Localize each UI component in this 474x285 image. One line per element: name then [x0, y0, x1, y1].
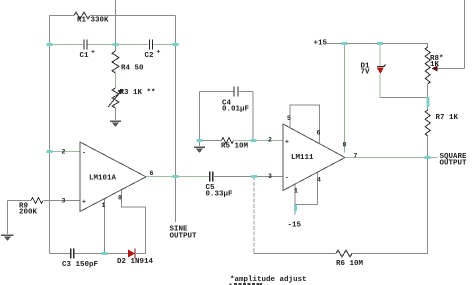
wire R3 to ground — [115, 108, 117, 120]
svg-text:R4 50: R4 50 — [121, 65, 144, 73]
svg-text:C3 150pF: C3 150pF — [62, 261, 99, 269]
wire top feedback — [50, 15, 75, 17]
wire right rail of input loop — [175, 16, 177, 223]
wire C4 loop right — [252, 92, 254, 141]
ground under C4 loop — [194, 147, 205, 154]
wire D1 to R8 rail — [380, 97, 428, 99]
wire feedback vertical — [253, 177, 255, 251]
wire R7 to output row — [427, 136, 429, 158]
resistor R3 — [112, 88, 119, 108]
svg-text:1K: 1K — [430, 61, 440, 69]
wire pin1 down — [103, 199, 105, 254]
wire R8 to R7 — [427, 84, 429, 110]
svg-text:6: 6 — [317, 130, 321, 137]
wire +15 row — [327, 43, 428, 45]
resistor R7 — [425, 110, 430, 136]
note distortion (second footnote, cut off at image bottom) — [230, 283, 263, 285]
node pin1 bottom — [102, 252, 108, 255]
wire LM111 pin1 — [294, 184, 296, 204]
svg-text:C1: C1 — [80, 52, 90, 60]
node D1 top — [377, 42, 383, 45]
node pin6 junction — [173, 175, 179, 178]
svg-text:OUTPUT: OUTPUT — [440, 160, 468, 168]
svg-text:R1 330K: R1 330K — [77, 17, 109, 25]
node square out — [425, 156, 431, 159]
capacitor C5 — [210, 172, 213, 182]
svg-text:R3 1K **: R3 1K ** — [120, 89, 156, 97]
capacitor C3 — [71, 249, 74, 259]
wire R5 row left — [200, 140, 222, 142]
wire C4 loop top — [200, 91, 254, 93]
svg-text:8: 8 — [118, 195, 122, 202]
wire right rail down — [427, 158, 429, 255]
svg-text:LM111: LM111 — [291, 154, 314, 162]
capacitor C1 — [84, 40, 87, 50]
comparator U2 LM111 — [283, 124, 345, 191]
wire LM111 pin4 — [316, 172, 318, 204]
wire R5 to LM111 pin2 — [235, 140, 284, 142]
resistor R8 — [427, 44, 429, 48]
wire pin8 bend — [122, 190, 146, 254]
svg-text:2: 2 — [268, 137, 272, 144]
svg-text:-: - — [285, 175, 289, 182]
svg-text:1: 1 — [102, 202, 106, 209]
svg-text:D2 1N914: D2 1N914 — [117, 258, 154, 266]
wire D1 top — [379, 44, 381, 67]
resistor R9 — [31, 198, 43, 204]
op-amp U1 LM101A — [80, 142, 146, 212]
svg-text:*amplitude adjust: *amplitude adjust — [230, 276, 307, 284]
resistor R5 — [222, 138, 234, 144]
node C row right — [173, 43, 179, 46]
wire D2 to corner — [136, 253, 146, 255]
wire C5 to LM111 — [213, 176, 283, 178]
svg-text:OUTPUT: OUTPUT — [170, 233, 198, 241]
svg-text:5: 5 — [287, 115, 291, 122]
svg-text:200K: 200K — [19, 209, 38, 217]
wire capacitor row b — [88, 44, 149, 46]
wire balance loop pins 5-6 — [290, 105, 319, 144]
capacitor C4 — [234, 87, 238, 97]
svg-text:7: 7 — [354, 153, 358, 160]
svg-text:-15: -15 — [288, 222, 302, 230]
svg-text:0.33µF: 0.33µF — [206, 191, 234, 199]
potentiometer wiper R8 — [432, 0, 465, 72]
svg-text:+: + — [91, 49, 95, 56]
svg-text:-: - — [82, 150, 86, 157]
svg-text:0.01µF: 0.01µF — [222, 106, 250, 114]
capacitor C2 — [150, 40, 153, 50]
wire top feedback right — [90, 15, 176, 17]
node R5 ground — [197, 139, 203, 142]
svg-text:R5 10M: R5 10M — [221, 143, 249, 151]
resistor R1 — [74, 12, 90, 19]
wire R4 to R3 — [115, 71, 117, 88]
svg-text:2: 2 — [62, 149, 66, 156]
svg-text:+15: +15 — [314, 40, 328, 48]
svg-text:C2: C2 — [145, 52, 155, 60]
ground under R3 — [110, 121, 121, 128]
node C5 feedback junction — [251, 175, 257, 178]
svg-text:8: 8 — [343, 142, 347, 149]
wire op-amp pin3 R9 row — [8, 200, 32, 202]
wire D1 bottom — [379, 74, 381, 98]
node R5 right — [251, 139, 257, 142]
svg-text:LM101A: LM101A — [89, 175, 117, 183]
wire R9 ground stub — [7, 201, 9, 235]
svg-text:+: + — [82, 199, 86, 206]
node V+ — [342, 42, 348, 45]
svg-text:+: + — [285, 139, 289, 146]
svg-text:1: 1 — [294, 188, 298, 195]
wire ground stub C4 — [199, 141, 201, 147]
wire C3 to D2 — [75, 253, 129, 255]
wire pin1-pin4 link — [295, 204, 317, 206]
wire capacitor row c — [153, 44, 176, 46]
svg-text:+: + — [157, 49, 161, 56]
node R8 R7 — [426, 97, 429, 107]
svg-text:R7 1K: R7 1K — [436, 114, 459, 122]
resistor R4 — [112, 51, 119, 73]
svg-text:6: 6 — [150, 170, 154, 177]
node C1 row left — [47, 43, 53, 46]
node minus15 — [294, 205, 297, 211]
wire capacitor row — [50, 44, 84, 46]
diode D2 1N914 — [128, 249, 135, 259]
wire op-amp pin2 — [50, 151, 81, 153]
wire R6 row — [254, 253, 428, 255]
zener D1 — [377, 65, 386, 75]
svg-text:R6 10M: R6 10M — [336, 260, 364, 268]
wire R9 to op-amp — [44, 200, 80, 202]
resistor R6 — [336, 250, 352, 257]
wire -15 stub — [294, 205, 296, 215]
node C row center — [113, 43, 119, 46]
wire LM111 output pin7 — [346, 157, 438, 159]
wire pin6 output — [146, 176, 209, 178]
wire bottom row to C3 — [50, 253, 71, 255]
wire V+ pin8 line — [343, 44, 345, 153]
wire frequency input stub — [115, 0, 117, 51]
junction ticks (cyan) — [47, 42, 431, 255]
potentiometer arrow R3 — [108, 90, 122, 107]
wire C4 loop left — [199, 92, 201, 141]
svg-text:4: 4 — [317, 177, 321, 184]
node pin2 rail — [47, 150, 53, 153]
svg-text:7V: 7V — [361, 69, 371, 77]
ground under R9 — [1, 235, 14, 242]
wire left rail — [49, 16, 51, 254]
svg-text:3: 3 — [268, 173, 272, 180]
svg-text:3: 3 — [62, 198, 66, 205]
